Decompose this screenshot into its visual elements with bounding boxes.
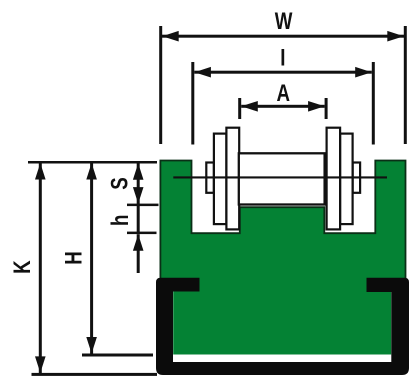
dimension H line <box>90 163 93 354</box>
dimension S arrow bottom <box>133 187 144 204</box>
dimension A extension line right <box>325 98 328 119</box>
svg-text:A: A <box>276 80 290 107</box>
chain roller <box>239 153 325 204</box>
svg-text:W: W <box>275 8 293 35</box>
steel C-channel <box>156 278 409 375</box>
chain outer plate left <box>214 134 227 225</box>
dimension W line <box>162 35 404 38</box>
dimension I extension line right <box>372 62 375 145</box>
dimension S arrow top <box>133 163 144 180</box>
dimension I extension line left <box>191 62 194 145</box>
top extension line for K H S <box>28 161 157 164</box>
dimension H arrow bottom <box>86 337 97 354</box>
pin centerline <box>173 176 387 178</box>
dimension W extension line right <box>404 26 407 144</box>
dimension A arrow right <box>308 101 325 112</box>
S h tick line upper <box>127 204 159 207</box>
svg-text:S: S <box>106 177 133 189</box>
bottom extension line for K <box>32 373 158 376</box>
dimension A line <box>241 105 324 108</box>
svg-text:I: I <box>280 45 285 72</box>
dimension K arrow top <box>35 163 46 180</box>
dimension I arrow right <box>355 67 372 78</box>
svg-text:K: K <box>9 260 36 274</box>
green guide profile body <box>160 161 405 355</box>
dimension W arrow right <box>387 31 404 42</box>
green profile outline (top working surfaces) <box>160 161 405 291</box>
dimension h line between ticks <box>137 206 140 233</box>
dimension I arrow left <box>194 67 211 78</box>
bottom extension line for H <box>82 354 153 357</box>
dimension A extension line left <box>238 98 241 119</box>
dimension K line <box>39 163 42 373</box>
chain inner plate left <box>226 128 239 230</box>
dimension h lower arrow <box>133 234 144 251</box>
dimension h lower arrow stem <box>137 234 140 273</box>
dimension S line <box>137 164 140 205</box>
chain outer plate right <box>340 134 353 225</box>
chain inner plate right <box>327 128 341 230</box>
dimension K arrow bottom <box>35 356 46 373</box>
svg-text:H: H <box>60 251 87 265</box>
dimension H arrow top <box>86 163 97 180</box>
dimension A arrow left <box>241 101 257 112</box>
svg-text:h: h <box>107 215 134 226</box>
chain pin end cap right <box>353 163 361 193</box>
dimension W extension line left <box>159 26 162 144</box>
dimension I line <box>194 71 371 74</box>
dimension W arrow left <box>162 31 179 42</box>
S h tick line lower <box>127 232 157 235</box>
chain pin end cap left <box>206 163 214 193</box>
